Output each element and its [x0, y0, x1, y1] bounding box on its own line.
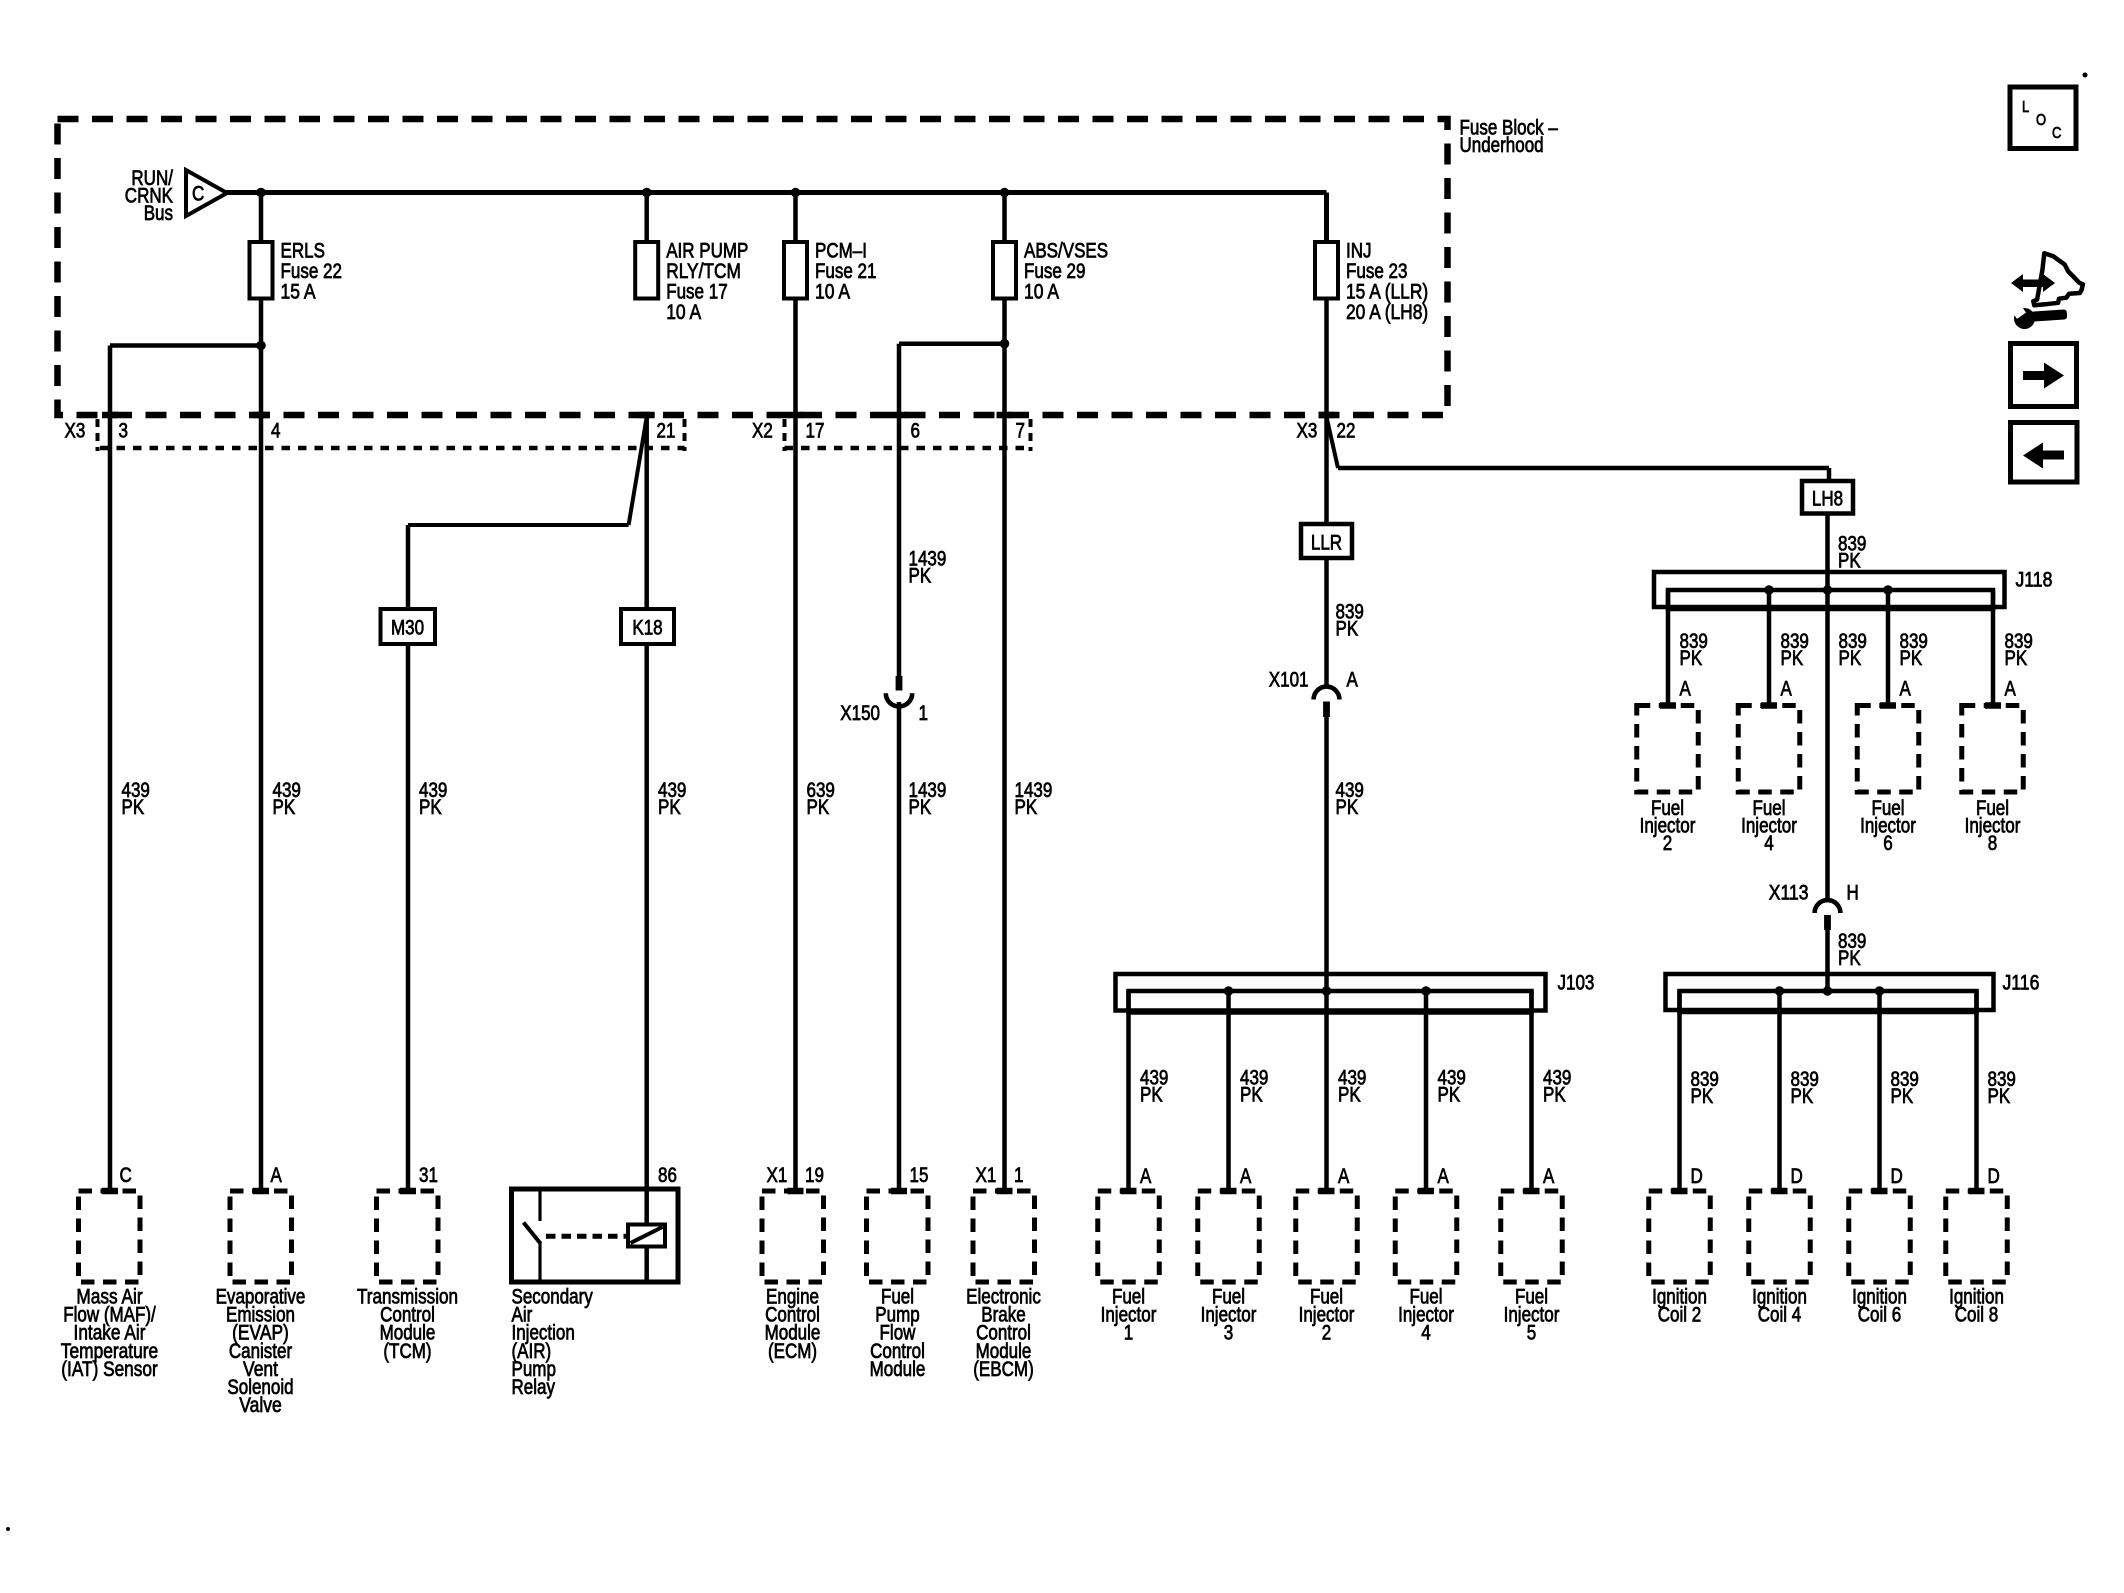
wire 1439 PK fuel pump module upper (pin 6) — [899, 344, 946, 676]
wire jog to MAF branch — [110, 343, 261, 348]
svg-text:PK: PK — [1838, 550, 1861, 573]
harness label box LLR — [1301, 524, 1352, 558]
svg-text:PK: PK — [1438, 1084, 1461, 1107]
svg-text:Coil 8: Coil 8 — [1955, 1304, 1999, 1327]
svg-text:4: 4 — [1764, 832, 1774, 855]
pin 86 label (relay) — [658, 1164, 677, 1187]
svg-text:A: A — [1438, 1165, 1449, 1188]
svg-text:(ECM): (ECM) — [768, 1340, 817, 1363]
svg-text:PK: PK — [1900, 647, 1923, 670]
svg-text:Coil 4: Coil 4 — [1758, 1304, 1802, 1327]
svg-text:Module: Module — [870, 1358, 926, 1381]
wire 439 PK X101 to J103 — [1327, 717, 1364, 991]
RUN/CRNK Bus feed triangle C — [125, 167, 227, 225]
svg-text:A: A — [2005, 678, 2016, 701]
svg-text:1: 1 — [919, 702, 929, 725]
junction dot J116 a — [1775, 986, 1785, 996]
svg-text:10 A: 10 A — [815, 280, 850, 303]
EVAP canister vent solenoid valve (component box) — [216, 1188, 306, 1417]
fuse block label Fuse Block - Underhood — [1460, 117, 1559, 158]
svg-text:C: C — [120, 1164, 132, 1187]
svg-text:6: 6 — [1883, 832, 1893, 855]
forward arrow icon — [2011, 344, 2077, 407]
fuse F23 INJ — [1315, 193, 1428, 324]
wire 439 PK J103 to fuel injector 2 — [1319, 991, 1367, 1194]
wire LLR box to X101 — [1324, 558, 1329, 688]
svg-text:C: C — [192, 183, 204, 206]
pin C label (MAF) — [120, 1164, 132, 1187]
label J118 — [2016, 569, 2053, 592]
svg-text:J103: J103 — [1558, 972, 1595, 995]
svg-text:5: 5 — [1527, 1322, 1537, 1345]
svg-text:PK: PK — [807, 796, 830, 819]
wire 439 PK J103 to fuel injector 1 — [1121, 991, 1169, 1194]
svg-text:10 A: 10 A — [1024, 280, 1059, 303]
svg-text:PK: PK — [1839, 647, 1862, 670]
splice pack J118 (outer) — [1654, 572, 2005, 607]
junction dot ERLS/MAF jog — [256, 341, 266, 351]
wire 839 PK J118 to fuel injector 8 — [1985, 590, 2033, 709]
MAF/IAT sensor (component box) — [61, 1188, 158, 1381]
svg-text:15 A: 15 A — [281, 280, 316, 303]
fuel injector 3 (component box, bottom row) — [1198, 1191, 1260, 1345]
svg-text:20 A (LH8): 20 A (LH8) — [1346, 301, 1428, 324]
pin 15 label (fuel pump module) — [910, 1164, 929, 1187]
ignition coil 6 (component box) — [1849, 1191, 1911, 1327]
svg-text:PK: PK — [1791, 1085, 1814, 1108]
label X2 (middle connector) — [752, 420, 773, 443]
pin 21 label — [657, 420, 676, 443]
splice pack J103 (inner bus) — [1129, 991, 1532, 1013]
svg-text:D: D — [1988, 1165, 2000, 1188]
splice pack J116 (outer) — [1666, 974, 1994, 1010]
svg-text:2: 2 — [1663, 832, 1673, 855]
svg-text:86: 86 — [658, 1164, 677, 1187]
pin 3 tick — [102, 412, 118, 419]
svg-text:X3: X3 — [1297, 420, 1318, 443]
pin 22 label — [1337, 420, 1356, 443]
svg-text:J118: J118 — [2016, 569, 2053, 592]
fuel injector 4 (component box) — [1738, 706, 1800, 855]
pin 3 label — [119, 420, 129, 443]
fuel injector 2 (component box) — [1637, 706, 1699, 855]
ignition coil 4 (component box) — [1749, 1191, 1811, 1327]
fuel pump flow control module (component box) — [867, 1188, 929, 1381]
svg-text:L: L — [2022, 99, 2029, 116]
connector row X2 segment (fine dashed line) — [785, 446, 1031, 451]
wire 439 PK TCM via M30 — [408, 525, 447, 1191]
svg-text:A: A — [1240, 1165, 1251, 1188]
inline connector X113 pin H — [1769, 882, 1859, 931]
junction dot ABS branch fork — [1000, 339, 1010, 349]
separator left of X3 row — [96, 419, 100, 451]
wire jog ABS fork to fuel pump branch — [899, 341, 1005, 346]
junction dot J118 main — [1823, 585, 1833, 595]
svg-text:17: 17 — [806, 420, 825, 443]
svg-text:6: 6 — [911, 420, 921, 443]
wire 1439 PK EBCM (pin 7 to X1 1) — [1005, 299, 1053, 1192]
svg-text:7: 7 — [1016, 420, 1026, 443]
wire fork pin21 to M30 (slant+jog) — [408, 417, 647, 525]
svg-text:PK: PK — [1338, 1084, 1361, 1107]
pin 17 tick — [788, 412, 804, 419]
junction dot J116 main — [1823, 986, 1833, 996]
fuel injector 1 (component box, bottom row) — [1098, 1191, 1160, 1345]
ignition coil 2 (component box) — [1649, 1191, 1711, 1327]
svg-text:PK: PK — [2005, 647, 2028, 670]
svg-text:A: A — [1900, 678, 1911, 701]
wire 839 PK J116 to ignition coil 4 — [1772, 991, 1819, 1194]
svg-text:Coil 2: Coil 2 — [1658, 1304, 1702, 1327]
separator left of pin 17 — [783, 419, 787, 451]
svg-text:22: 22 — [1337, 420, 1356, 443]
wire 839 PK LLR branch upper — [1327, 415, 1364, 641]
svg-text:PK: PK — [1838, 947, 1861, 970]
svg-text:PK: PK — [122, 796, 145, 819]
junction dot bus/PCM-I fuse — [791, 188, 801, 198]
svg-text:M30: M30 — [391, 617, 424, 640]
svg-text:31: 31 — [419, 1164, 438, 1187]
wire 839 PK J116 to ignition coil 6 — [1872, 991, 1919, 1194]
svg-text:A: A — [1543, 1165, 1554, 1188]
EBCM (component box) — [966, 1188, 1041, 1381]
pin 4 label — [271, 420, 281, 443]
svg-text:Underhood: Underhood — [1460, 134, 1544, 157]
fuse F22 ERLS 15A — [250, 193, 343, 304]
pin A label (EVAP) — [271, 1164, 282, 1187]
svg-text:X150: X150 — [840, 702, 880, 725]
junction dot J116 b — [1875, 986, 1885, 996]
svg-text:X113: X113 — [1769, 882, 1809, 905]
label X3 (right) — [1297, 420, 1318, 443]
pin 17 label — [806, 420, 825, 443]
svg-text:PK: PK — [1988, 1085, 2011, 1108]
svg-text:2: 2 — [1322, 1322, 1332, 1345]
pin 6 label — [911, 420, 921, 443]
svg-text:O: O — [2036, 112, 2046, 129]
wire 639 PK ECM (pin 17 to X1 19) — [796, 299, 835, 1192]
wire INJ fuse feed from bus corner — [1324, 193, 1329, 243]
svg-text:PK: PK — [1781, 647, 1804, 670]
pin 6 tick — [891, 412, 907, 419]
svg-text:PK: PK — [1336, 618, 1359, 641]
svg-text:8: 8 — [1988, 832, 1998, 855]
svg-text:(IAT) Sensor: (IAT) Sensor — [61, 1358, 157, 1381]
wire 839 PK J116 to ignition coil 2 — [1672, 991, 1719, 1194]
svg-text:PK: PK — [1240, 1084, 1263, 1107]
wire 839 PK J118 to fuel injector 6 — [1880, 590, 1928, 709]
svg-text:3: 3 — [1224, 1322, 1234, 1345]
svg-text:1: 1 — [1014, 1164, 1024, 1187]
LOC hotlink icon — [2010, 87, 2076, 149]
splice pack J103 (outer) — [1116, 974, 1546, 1011]
svg-text:PK: PK — [1336, 796, 1359, 819]
wire fork pin22 to LH8 (slant) — [1327, 417, 1830, 481]
svg-text:15: 15 — [910, 1164, 929, 1187]
svg-text:X1: X1 — [767, 1164, 788, 1187]
wire 839 PK J118 to fuel injector 4 — [1761, 590, 1809, 709]
wire 839 PK J116 to ignition coil 8 — [1969, 991, 2016, 1194]
svg-text:K18: K18 — [632, 617, 662, 640]
svg-text:A: A — [1338, 1165, 1349, 1188]
svg-text:3: 3 — [119, 420, 129, 443]
wire 439 PK J103 to fuel injector 3 — [1221, 991, 1269, 1194]
diagnostic car-and-wrench icon — [2009, 253, 2083, 329]
harness label box LH8 — [1802, 481, 1853, 514]
svg-text:A: A — [1347, 669, 1358, 692]
svg-text:10 A: 10 A — [666, 301, 701, 324]
svg-text:A: A — [1781, 678, 1792, 701]
separator right of pin 21 — [683, 419, 687, 451]
harness label box K18 — [621, 609, 674, 644]
junction dot J118 b — [1883, 585, 1893, 595]
inline connector X150 pin 1 — [840, 676, 928, 725]
speck bottom left — [6, 1527, 10, 1531]
splice pack J118 (inner bus) — [1668, 590, 1993, 609]
svg-text:X3: X3 — [65, 420, 86, 443]
junction dot J118 a — [1764, 585, 1774, 595]
svg-text:(EBCM): (EBCM) — [973, 1358, 1034, 1381]
svg-text:A: A — [271, 1164, 282, 1187]
svg-text:C: C — [2052, 125, 2061, 142]
svg-text:A: A — [1140, 1165, 1151, 1188]
svg-text:4: 4 — [1421, 1322, 1431, 1345]
svg-text:LH8: LH8 — [1812, 488, 1843, 511]
fuse F17 AIR PUMP RLY/TCM 10A — [635, 193, 748, 324]
secondary AIR injection pump relay (box with switch and coil) — [512, 1189, 679, 1399]
svg-text:J116: J116 — [2003, 972, 2040, 995]
svg-text:Valve: Valve — [239, 1394, 282, 1417]
back arrow icon — [2011, 423, 2078, 483]
svg-text:A: A — [1680, 678, 1691, 701]
svg-text:PK: PK — [909, 565, 932, 588]
svg-text:X101: X101 — [1269, 669, 1309, 692]
label J103 — [1558, 972, 1595, 995]
svg-text:PK: PK — [1140, 1084, 1163, 1107]
fuse block - underhood (dashed outline) — [58, 119, 1448, 415]
svg-text:PK: PK — [1691, 1085, 1714, 1108]
inline connector X101 pin A — [1269, 669, 1358, 718]
harness label box M30 — [381, 609, 436, 644]
svg-text:Relay: Relay — [512, 1376, 556, 1399]
junction dot J103 main — [1322, 986, 1332, 996]
splice pack J116 (inner bus) — [1680, 991, 1977, 1012]
svg-text:D: D — [1791, 1165, 1803, 1188]
ignition coil 8 (component box) — [1946, 1191, 2008, 1327]
pin 4 tick — [253, 412, 269, 419]
junction dot bus/ABS fuse — [1000, 188, 1010, 198]
wire 439 PK MAF (pin 3) — [110, 346, 150, 1192]
pin X1 label (ECM) — [767, 1164, 788, 1187]
wire 439 PK J103 to fuel injector 4 — [1418, 991, 1466, 1194]
label J116 — [2003, 972, 2040, 995]
wire 439 PK ERLS to EVAP (pin 4) — [261, 299, 301, 1192]
wire INJ fuse to pin 22 — [1324, 299, 1329, 416]
svg-text:Bus: Bus — [144, 202, 173, 225]
svg-text:PK: PK — [273, 796, 296, 819]
fuse F21 PCM-I 10A — [784, 193, 877, 304]
fuse F29 ABS/VSES 10A — [993, 193, 1108, 304]
label X3 (left connector) — [65, 420, 86, 443]
fuel injector 2 (component box, bottom row) — [1296, 1191, 1358, 1345]
svg-text:PK: PK — [1680, 647, 1703, 670]
separator right of pin 7 — [1029, 419, 1033, 451]
junction dot bus/AIRPUMP fuse — [642, 188, 652, 198]
svg-text:(TCM): (TCM) — [383, 1340, 431, 1363]
svg-text:H: H — [1847, 882, 1859, 905]
pin 22 tick — [1319, 412, 1335, 419]
svg-text:1: 1 — [1124, 1322, 1134, 1345]
svg-text:PK: PK — [658, 796, 681, 819]
speck top right — [2083, 73, 2088, 78]
svg-text:PK: PK — [909, 796, 932, 819]
svg-text:X2: X2 — [752, 420, 773, 443]
svg-text:Coil 6: Coil 6 — [1858, 1304, 1902, 1327]
wire 1439 PK fuel pump module lower — [899, 702, 946, 1191]
svg-text:PK: PK — [419, 796, 442, 819]
svg-text:PK: PK — [1891, 1085, 1914, 1108]
wire 839 PK J118 center to X113 — [1828, 590, 1867, 901]
fuel injector 8 (component box) — [1962, 706, 2024, 855]
svg-text:PK: PK — [1543, 1084, 1566, 1107]
wire 439 PK J103 to fuel injector 5 — [1524, 991, 1572, 1194]
connector row X3 segment (fine dashed line) — [100, 446, 685, 451]
pin 7 label — [1016, 420, 1026, 443]
svg-text:D: D — [1691, 1165, 1703, 1188]
wire 839 PK X113 to J116 — [1828, 930, 1867, 991]
wire 439 PK AIR pump relay via K18 — [647, 415, 687, 1190]
TCM (component box) — [357, 1188, 458, 1363]
junction dot J103 b — [1421, 986, 1431, 996]
pin 7 tick — [997, 412, 1013, 419]
svg-text:D: D — [1891, 1165, 1903, 1188]
junction dot J103 a — [1224, 986, 1234, 996]
bus wire (RUN/CRNK) — [225, 190, 1327, 195]
fuel injector 4 (component box, bottom row) — [1395, 1191, 1457, 1345]
fuel injector 6 (component box) — [1857, 706, 1919, 855]
svg-text:19: 19 — [805, 1164, 824, 1187]
wire 839 PK J118 to fuel injector 2 — [1660, 590, 1708, 709]
svg-text:PK: PK — [1015, 796, 1038, 819]
wire 839 PK LH8 to J118 — [1828, 514, 1867, 591]
svg-text:4: 4 — [271, 420, 281, 443]
ECM (component box) — [762, 1188, 824, 1363]
junction dot bus/ERLS — [256, 188, 266, 198]
pin 19 label (ECM) — [805, 1164, 824, 1187]
pin X1 label (EBCM) — [976, 1164, 997, 1187]
svg-text:LLR: LLR — [1311, 532, 1342, 555]
pin 31 label (TCM) — [419, 1164, 438, 1187]
fuel injector 5 (component box, bottom row) — [1501, 1191, 1563, 1345]
pin 1 label (EBCM) — [1014, 1164, 1024, 1187]
pin 21 tick — [639, 412, 655, 419]
svg-text:X1: X1 — [976, 1164, 997, 1187]
svg-text:21: 21 — [657, 420, 676, 443]
